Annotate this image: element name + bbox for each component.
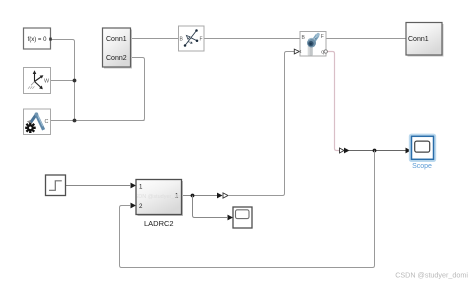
svg-text:Conn2: Conn2	[106, 55, 127, 62]
junction dot at LADRC2 output branch	[191, 194, 195, 198]
block: left subsystem Conn1/Conn2	[103, 28, 133, 69]
svg-text:f(x) = 0: f(x) = 0	[28, 37, 48, 43]
block: Step	[46, 175, 66, 196]
wire: solver net vertical (f(x)=0 to C line)	[51, 40, 75, 121]
filled arrowhead start of scope feed line	[344, 148, 350, 154]
block: Solver Configuration f(x)=0	[24, 28, 52, 49]
block: blue selected Scope	[410, 135, 435, 170]
junction dot before blue scope	[373, 149, 377, 153]
block: World Frame	[24, 68, 51, 94]
svg-text:C: C	[45, 119, 49, 125]
wire: step output to LADRC2 port 1	[66, 185, 131, 187]
svg-text:F: F	[321, 34, 324, 40]
svg-text:LADRC2: LADRC2	[144, 219, 174, 228]
arrowhead into LADRC2 port 2	[131, 203, 137, 209]
wire: feedback loop down-left-up into LADRC2 port 2	[120, 151, 375, 268]
watermark CSDN	[395, 271, 468, 280]
wire: Rigid Transform F to Revolute Joint B	[204, 38, 300, 40]
wire: Mechanism Config C port horizontal to Conn2 drop	[51, 120, 145, 122]
wire: Conn2 down to C net	[131, 58, 145, 121]
junction dot on C net	[73, 119, 77, 123]
wire: to revolute joint actuation input	[228, 52, 294, 196]
block: right subsystem Conn1	[406, 23, 444, 57]
svg-text:F: F	[200, 37, 203, 43]
svg-text:2: 2	[139, 203, 143, 210]
svg-text:Conn1: Conn1	[408, 36, 429, 43]
block: Mechanism Configuration	[24, 109, 51, 135]
block: LADRC2 subsystem	[131, 180, 187, 229]
svg-text:CSDN @studyer_domi: CSDN @studyer_domi	[395, 271, 468, 280]
block: Rigid Transform	[179, 26, 205, 51]
block: small Scope	[233, 207, 252, 228]
junction dot on W net	[73, 79, 77, 83]
wire: Revolute Joint F to right Conn1 subsystem	[326, 38, 406, 40]
wire: joint q output pink line down	[326, 52, 340, 151]
wire: LADRC2 output to junction	[182, 195, 218, 197]
hollow arrowhead mid-line	[223, 193, 228, 198]
svg-text:1: 1	[139, 183, 143, 190]
svg-text:q: q	[321, 50, 324, 56]
wire: World Frame W port to junction	[51, 80, 75, 82]
block: Revolute Joint	[300, 32, 327, 57]
wire: q signal to scope junction	[349, 150, 406, 152]
svg-text:Conn1: Conn1	[106, 36, 127, 43]
arrowhead into blue Scope	[406, 148, 412, 154]
filled arrowhead mid-line	[217, 193, 223, 199]
wire: Conn1 to Rigid Transform B	[131, 38, 179, 40]
arrowhead into small scope	[228, 215, 234, 221]
svg-text:Scope: Scope	[412, 163, 432, 170]
hollow arrowhead at joint input port	[294, 49, 299, 54]
hollow arrowhead on q line	[340, 148, 345, 153]
svg-text:CSDN @studyer_domi: CSDN @studyer_domi	[131, 194, 187, 200]
arrowhead into LADRC2 port 1	[131, 183, 137, 189]
wire: branch down to small scope	[193, 196, 228, 218]
